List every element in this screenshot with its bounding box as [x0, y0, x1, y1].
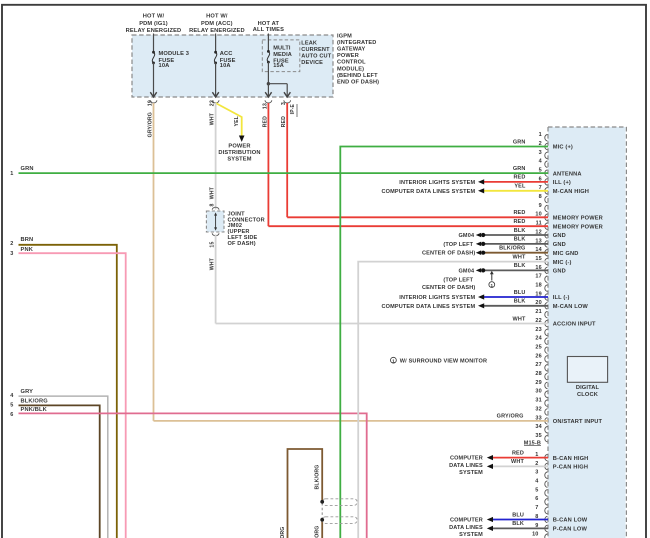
svg-text:1: 1: [10, 171, 13, 177]
label HOT W/ PDM (ACC) RELAY ENERGIZED: [189, 14, 245, 34]
junction in fuse box: [267, 82, 270, 85]
leak current auto cut device dashed box: [262, 40, 300, 72]
svg-text:BLK/ORG: BLK/ORG: [315, 526, 321, 538]
svg-text:1: 1: [539, 132, 542, 138]
svg-text:23: 23: [535, 327, 541, 333]
svg-text:BLK: BLK: [514, 263, 526, 269]
wire GRN entry 1 to head unit pin 5 ANTENNA: [19, 172, 549, 174]
svg-text:CURRENT: CURRENT: [301, 47, 330, 53]
svg-text:BLK/ORG: BLK/ORG: [499, 246, 525, 252]
wire RED fuse pin 3 to head unit pin 10 MEMORY POWER: [287, 103, 548, 217]
svg-text:CONTROL: CONTROL: [337, 60, 366, 66]
svg-text:GND: GND: [553, 233, 566, 239]
wire RED M15-B pin 1: [487, 455, 548, 460]
connector pin glyphs main connector: [545, 135, 548, 442]
svg-text:15: 15: [210, 242, 216, 248]
svg-text:GND: GND: [553, 269, 566, 275]
wire WHT JM02 pin15 down and to head unit pin 22 ACC/ON INPUT: [216, 235, 548, 324]
head unit M15-B pin function labels: [553, 456, 589, 533]
svg-text:MODULE 3: MODULE 3: [159, 51, 190, 57]
svg-text:(TOP LEFT: (TOP LEFT: [443, 242, 473, 248]
wire BLU M15-B pin 8: [487, 517, 548, 522]
label COMPUTER DATA LINES SYSTEM: [382, 304, 476, 310]
svg-text:RED: RED: [513, 219, 525, 225]
IGPM fuse box: [132, 35, 333, 97]
svg-text:17: 17: [535, 274, 541, 280]
svg-text:LEAK: LEAK: [301, 40, 317, 46]
svg-text:GM04: GM04: [458, 268, 474, 274]
svg-text:10A: 10A: [159, 63, 170, 69]
svg-text:BLK: BLK: [514, 237, 526, 243]
svg-text:10: 10: [532, 532, 538, 538]
svg-text:DIGITAL: DIGITAL: [576, 385, 600, 391]
svg-text:MEMORY POWER: MEMORY POWER: [553, 224, 603, 230]
wire WHT M15-B pin 2: [487, 464, 548, 469]
note stub pin 17 with footnote 1: [489, 271, 495, 288]
svg-text:COMPUTER DATA LINES SYSTEM: COMPUTER DATA LINES SYSTEM: [382, 304, 476, 310]
svg-text:MEDIA: MEDIA: [273, 52, 292, 58]
wire YEL to power distribution: [216, 103, 245, 142]
svg-text:BLK/ORG: BLK/ORG: [280, 527, 286, 538]
svg-text:POWER: POWER: [228, 143, 250, 149]
wire PNK entry 3 down: [19, 253, 126, 538]
svg-text:BRN: BRN: [21, 237, 34, 243]
footnote 1 W/ SURROUND VIEW MONITOR: [391, 357, 488, 364]
svg-text:10A: 10A: [220, 63, 231, 69]
svg-text:18: 18: [535, 283, 541, 289]
wire RED head unit pin 6: [478, 179, 548, 184]
svg-text:M-CAN HIGH: M-CAN HIGH: [553, 189, 589, 195]
label COMPUTER DATA LINES SYSTEM (B-CAN/P-CAN low): [449, 518, 483, 538]
label HOT W/ PDM (IG1) RELAY ENERGIZED: [126, 14, 182, 34]
svg-text:M-CAN LOW: M-CAN LOW: [553, 304, 589, 310]
svg-text:(BEHIND LEFT: (BEHIND LEFT: [337, 73, 378, 79]
svg-text:B-CAN LOW: B-CAN LOW: [553, 518, 588, 524]
svg-text:GRY/ORG: GRY/ORG: [497, 414, 524, 420]
svg-text:AUTO CUT: AUTO CUT: [301, 54, 331, 60]
svg-text:21: 21: [535, 309, 541, 315]
svg-text:8: 8: [210, 204, 216, 207]
svg-text:29: 29: [535, 380, 541, 386]
svg-text:MULTI: MULTI: [273, 45, 291, 51]
fuse MULTI MEDIA FUSE 15A: [267, 34, 292, 84]
svg-text:30: 30: [535, 389, 541, 395]
wire YEL head unit pin 7: [478, 188, 548, 193]
svg-text:15A: 15A: [273, 63, 284, 69]
svg-text:END OF DASH): END OF DASH): [337, 80, 379, 86]
svg-text:MIC (+): MIC (+): [553, 145, 573, 151]
svg-text:BLK: BLK: [514, 228, 526, 234]
svg-text:W/ SURROUND VIEW MONITOR: W/ SURROUND VIEW MONITOR: [400, 358, 487, 364]
wire branch to pin 3: [265, 84, 291, 103]
wire RED fuse pin 13 to head unit pin 11 MEMORY POWER: [268, 103, 548, 226]
svg-text:INTERIOR LIGHTS SYSTEM: INTERIOR LIGHTS SYSTEM: [399, 295, 475, 301]
svg-text:9: 9: [539, 203, 542, 209]
svg-text:31: 31: [535, 398, 541, 404]
wire BLK M15-B pin 9: [487, 526, 548, 531]
label COMPUTER DATA LINES SYSTEM (B-CAN/P-CAN high): [449, 456, 483, 477]
svg-text:WHT: WHT: [210, 186, 216, 199]
svg-text:ACC/ON INPUT: ACC/ON INPUT: [553, 322, 596, 328]
wire WHT microphone vertical to head unit pin 15 MIC (-): [358, 262, 548, 538]
svg-text:DATA LINES: DATA LINES: [449, 463, 483, 469]
svg-text:PNK: PNK: [21, 247, 34, 253]
label LEAK CURRENT AUTO CUT DEVICE: [301, 40, 331, 66]
svg-text:PDM (ACC): PDM (ACC): [201, 21, 233, 27]
svg-text:RELAY ENERGIZED: RELAY ENERGIZED: [126, 28, 182, 34]
svg-text:BLU: BLU: [512, 512, 524, 518]
label JOINT CONNECTOR JM02 (UPPER LEFT SIDE OF DASH): [228, 212, 265, 247]
svg-text:HOT AT: HOT AT: [258, 21, 280, 27]
svg-text:RED: RED: [512, 450, 524, 456]
svg-text:MIC GND: MIC GND: [553, 251, 579, 257]
svg-text:PNK/BLK: PNK/BLK: [21, 407, 48, 413]
svg-text:YEL: YEL: [514, 184, 526, 190]
wire GRN microphone vertical to head unit pin 2 MIC (+): [340, 147, 548, 538]
svg-text:RED: RED: [513, 210, 525, 216]
svg-text:POWER: POWER: [337, 53, 359, 59]
svg-text:P-CAN HIGH: P-CAN HIGH: [553, 465, 588, 471]
head unit pin function labels: [553, 145, 603, 425]
connector pin glyphs M15-B: [545, 454, 548, 538]
svg-text:27: 27: [535, 362, 541, 368]
svg-text:RELAY ENERGIZED: RELAY ENERGIZED: [189, 28, 245, 34]
connector label IP-E: [290, 103, 297, 117]
wire BLK/ORG shield staple: [288, 449, 323, 538]
svg-text:6: 6: [535, 496, 538, 502]
svg-text:SYSTEM: SYSTEM: [227, 156, 251, 162]
svg-text:COMPUTER DATA LINES SYSTEM: COMPUTER DATA LINES SYSTEM: [382, 189, 476, 195]
svg-text:WHT: WHT: [511, 459, 524, 465]
svg-text:6: 6: [10, 412, 13, 418]
wire BLK head unit pin 16 to ground GM04: [476, 268, 548, 273]
wire BLK head unit pin 13 to ground GM04: [476, 242, 548, 247]
svg-text:1: 1: [392, 358, 395, 363]
svg-text:WHT: WHT: [513, 316, 526, 322]
svg-text:INTERIOR LIGHTS SYSTEM: INTERIOR LIGHTS SYSTEM: [399, 180, 475, 186]
svg-text:MEMORY POWER: MEMORY POWER: [553, 216, 603, 222]
digital clock box: [567, 357, 607, 399]
connector label M15-B: [524, 440, 541, 446]
svg-text:ILL (+): ILL (+): [553, 180, 571, 186]
svg-text:WHT: WHT: [210, 257, 216, 270]
svg-text:3: 3: [535, 470, 538, 476]
svg-text:IGPM: IGPM: [337, 33, 352, 39]
svg-text:P-CAN LOW: P-CAN LOW: [553, 527, 588, 533]
label INTERIOR LIGHTS SYSTEM: [399, 295, 475, 301]
svg-text:ACC: ACC: [220, 51, 233, 57]
fuse MODULE 3 FUSE 10A: [150, 34, 189, 104]
svg-text:(TOP LEFT: (TOP LEFT: [443, 277, 473, 283]
svg-text:GND: GND: [553, 242, 566, 248]
fuse ACC FUSE 10A: [212, 34, 235, 104]
svg-text:BLK/ORG: BLK/ORG: [315, 465, 321, 490]
svg-text:32: 32: [535, 406, 541, 412]
svg-text:MODULE): MODULE): [337, 66, 364, 72]
label INTERIOR LIGHTS SYSTEM: [399, 180, 475, 186]
label IGPM (INTEGRATED GATEWAY POWER CONTROL MODULE) (BEHIND LEFT END OF DASH): [337, 33, 379, 85]
head unit (audio/AVN) box: [548, 127, 626, 538]
label COMPUTER DATA LINES SYSTEM: [382, 189, 476, 195]
wire BLK head unit pin 20: [478, 303, 548, 308]
svg-text:CENTER OF DASH): CENTER OF DASH): [422, 251, 475, 257]
svg-text:GRN: GRN: [513, 139, 526, 145]
svg-text:2: 2: [10, 241, 13, 247]
svg-text:B-CAN HIGH: B-CAN HIGH: [553, 456, 589, 462]
wire GRY/ORG vertical from fuse 19: [153, 103, 155, 421]
svg-text:COMPUTER: COMPUTER: [450, 518, 483, 524]
svg-text:5: 5: [10, 403, 13, 409]
svg-text:DEVICE: DEVICE: [301, 60, 323, 66]
svg-text:24: 24: [535, 336, 542, 342]
svg-text:RED: RED: [513, 175, 525, 181]
wire BLK/ORG head unit pin 14 to ground GM04: [476, 250, 548, 255]
svg-text:5: 5: [535, 487, 538, 493]
svg-text:26: 26: [535, 353, 541, 359]
svg-text:8: 8: [539, 194, 542, 200]
svg-text:35: 35: [535, 433, 541, 439]
svg-text:34: 34: [535, 424, 542, 430]
svg-text:BLK: BLK: [514, 299, 526, 305]
svg-text:YEL: YEL: [234, 115, 240, 126]
svg-text:(INTEGRATED: (INTEGRATED: [337, 40, 376, 46]
svg-text:CENTER OF DASH): CENTER OF DASH): [422, 285, 475, 291]
wire BLK/ORG entry 5 down: [19, 405, 100, 538]
svg-text:ON/START INPUT: ON/START INPUT: [553, 419, 603, 425]
wire WHT vertical fuse 22 to JM02 pin 8: [215, 103, 217, 210]
svg-text:PDM (IG1): PDM (IG1): [139, 21, 168, 27]
svg-text:GRN: GRN: [21, 166, 34, 172]
svg-text:DISTRIBUTION: DISTRIBUTION: [218, 150, 260, 156]
shield drain dashed link: [321, 503, 323, 519]
svg-text:BLU: BLU: [514, 290, 526, 296]
svg-text:3: 3: [539, 150, 542, 156]
svg-text:ANTENNA: ANTENNA: [553, 171, 582, 177]
svg-text:CLOCK: CLOCK: [577, 392, 599, 398]
wire BRN entry 2 down: [19, 245, 117, 538]
wire GRY entry 4 down: [19, 396, 108, 538]
pin numbers 1-35: [535, 132, 542, 439]
svg-text:BLK: BLK: [512, 521, 524, 527]
svg-text:GATEWAY: GATEWAY: [337, 47, 366, 53]
svg-text:WHT: WHT: [513, 254, 526, 260]
joint connector JM02: [206, 207, 224, 236]
svg-text:HOT W/: HOT W/: [206, 14, 228, 20]
svg-text:7: 7: [535, 505, 538, 511]
wire BLK head unit pin 12 to ground GM04: [476, 233, 548, 238]
svg-text:ILL (-): ILL (-): [553, 295, 570, 301]
svg-text:GRY: GRY: [21, 389, 34, 395]
wire GRY/ORG horizontal to pin 33 ON/START INPUT: [154, 420, 549, 422]
svg-text:BLK/ORG: BLK/ORG: [21, 398, 49, 404]
svg-text:28: 28: [535, 371, 541, 377]
label POWER DISTRIBUTION SYSTEM: [218, 143, 260, 162]
svg-text:SYSTEM: SYSTEM: [459, 532, 483, 538]
wire BLU head unit pin 19: [478, 294, 548, 299]
svg-text:25: 25: [535, 345, 541, 351]
svg-text:GM04: GM04: [458, 233, 474, 239]
shield symbol lower: [320, 517, 357, 524]
label HOT AT ALL TIMES: [253, 21, 284, 33]
svg-text:ALL TIMES: ALL TIMES: [253, 27, 284, 33]
svg-text:1: 1: [491, 283, 494, 288]
svg-text:IP-E: IP-E: [290, 103, 296, 114]
svg-text:SYSTEM: SYSTEM: [459, 470, 483, 476]
svg-text:COMPUTER: COMPUTER: [450, 456, 483, 462]
wire BLK/ORG below shield: [321, 520, 323, 538]
svg-text:DATA LINES: DATA LINES: [449, 525, 483, 531]
svg-text:OF DASH): OF DASH): [228, 241, 256, 247]
wire PNK/BLK entry 6 across and down: [19, 413, 367, 538]
shield symbol upper: [320, 499, 357, 506]
svg-text:3: 3: [10, 251, 13, 257]
pin numbers M15-B 1-10: [532, 452, 539, 538]
svg-text:MIC (-): MIC (-): [553, 260, 572, 266]
svg-text:HOT W/: HOT W/: [143, 14, 165, 20]
svg-text:GRN: GRN: [513, 166, 526, 172]
